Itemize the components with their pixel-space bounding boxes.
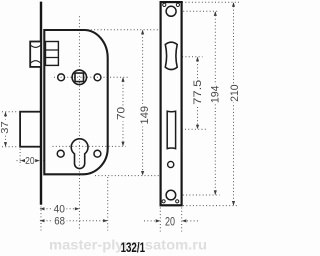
- latch cutout: [165, 42, 177, 69]
- svg-text:70: 70: [115, 107, 127, 120]
- dim 20 left line: [17, 160, 25, 162]
- left lower hole: [57, 150, 64, 157]
- svg-text:20: 20: [25, 156, 35, 167]
- label 40: [52, 204, 66, 216]
- corner screw dots: [163, 3, 166, 6]
- 194 bottom ext: [176, 194, 219, 196]
- svg-text:132/1: 132/1: [121, 240, 146, 255]
- label 149: [138, 104, 151, 127]
- label 194: [210, 85, 222, 104]
- dim 210 arrows: [232, 2, 235, 7]
- cylinder fixing screw hole: [168, 161, 174, 167]
- bottom extension verticals left view: [40, 207, 42, 231]
- right view: latch centerline ext: [179, 56, 203, 58]
- right view: deadbolt centerline ext: [169, 128, 208, 130]
- euro cylinder profile: [71, 139, 88, 169]
- deadbolt cutout: [167, 111, 175, 148]
- 194 top ext: [177, 10, 218, 12]
- latch box inside case: [46, 42, 59, 66]
- vertical centerline through spindle and cylinder: [78, 16, 80, 229]
- latch head (side, protruding): [30, 42, 41, 67]
- dim 20 right arrows (outside): [156, 219, 161, 222]
- dim 20 right line + tails: [144, 220, 155, 222]
- svg-text:194: 194: [210, 86, 222, 104]
- dim 68 line: [40, 220, 108, 222]
- deadbolt bottom extension: [2, 146, 19, 148]
- label 70: [115, 106, 127, 122]
- dim 40 arrows: [40, 207, 45, 210]
- dim 37 line: [5, 113, 7, 147]
- dim 70 line: [122, 78, 124, 146]
- label 37: [0, 120, 11, 136]
- dim 77.5 arrows: [196, 57, 199, 62]
- case-bottom extension line: [95, 175, 160, 177]
- case-top extension line: [88, 29, 161, 31]
- svg-text:20: 20: [165, 214, 175, 228]
- dim 77.5 line: [197, 58, 199, 129]
- dim 194 arrows: [214, 11, 217, 16]
- left upper hole: [58, 74, 65, 81]
- latch head bevel arcs: [30, 45, 41, 64]
- faceplate (side, edge-on): [40, 2, 42, 205]
- svg-text:77.5: 77.5: [192, 80, 204, 105]
- label 77.5: [192, 79, 204, 106]
- dim 210 line: [233, 3, 235, 205]
- deadbolt thrown (side): [20, 112, 41, 147]
- svg-text:210: 210: [229, 85, 241, 102]
- dim 194 line: [214, 12, 216, 194]
- bottom screw hole: [166, 190, 176, 200]
- spindle square: [75, 73, 84, 82]
- label 68: [52, 215, 66, 227]
- top screw hole: [166, 6, 176, 16]
- svg-text:68: 68: [54, 215, 65, 227]
- dim 70 arrows: [121, 77, 124, 82]
- dim 40 line: [40, 208, 80, 210]
- 210 bottom ext: [183, 205, 239, 207]
- deadbolt top extension: [2, 111, 19, 113]
- svg-text:149: 149: [139, 106, 151, 125]
- dim 149 line: [142, 31, 144, 176]
- dim 20 left arrows: [20, 159, 25, 162]
- deadbolt face vertical extension: [19, 149, 21, 166]
- dim 149 arrows: [141, 30, 144, 35]
- faceplate front outline: [161, 2, 182, 205]
- spindle hub circle: [72, 70, 86, 84]
- dim 37 arrows: [4, 112, 7, 117]
- latch box divider lines: [46, 50, 59, 58]
- cylinder horizontal centerline: [53, 145, 126, 147]
- right lower hole: [94, 150, 101, 157]
- lock case outline: [44, 30, 107, 174]
- right upper hole: [94, 74, 101, 81]
- label 210: [229, 84, 241, 103]
- dim 68 arrows: [40, 219, 45, 222]
- spindle horizontal centerline: [54, 76, 130, 78]
- 210 top ext: [182, 1, 239, 3]
- right view bottom extension verticals: [159, 208, 161, 232]
- svg-text:40: 40: [54, 204, 65, 216]
- svg-text:37: 37: [0, 121, 11, 134]
